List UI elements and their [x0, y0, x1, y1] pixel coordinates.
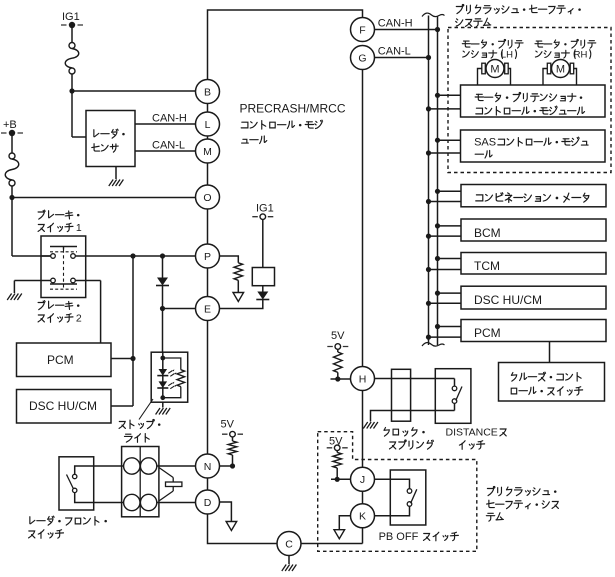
wire [207, 136, 209, 139]
label CAN-H (F) [378, 18, 413, 30]
wire [454, 379, 456, 387]
diode (brake signal) [156, 278, 169, 286]
label DSC HU/CM (right) [474, 293, 542, 307]
connector F [351, 18, 375, 42]
fuse (IG1 circuit) [65, 43, 79, 75]
node [426, 150, 431, 155]
svg-text:CAN-H: CAN-H [152, 113, 187, 125]
wire [14, 281, 50, 294]
capacitor (noise) [159, 468, 182, 502]
node [160, 356, 165, 361]
wire [543, 69, 577, 86]
wire [207, 268, 209, 297]
label precrash safety system (upper) [456, 4, 581, 26]
label DISTANCE switch [446, 427, 507, 450]
svg-text:IG1: IG1 [256, 203, 274, 215]
wire [362, 528, 364, 544]
DISTANCE switch contacts [452, 386, 457, 403]
connector J [351, 467, 375, 491]
svg-text:G: G [358, 52, 366, 64]
wire [71, 28, 73, 43]
relay box [252, 268, 274, 286]
svg-text:F: F [359, 24, 365, 36]
radar front switch contacts [73, 474, 77, 492]
svg-text:TCM: TCM [474, 259, 500, 273]
connector terminal [140, 494, 156, 510]
PB OFF switch contacts [407, 489, 412, 507]
connector L [196, 112, 220, 136]
svg-text:SAS: SAS [474, 137, 496, 149]
label motor pretensioner LH [462, 39, 523, 60]
wire [429, 152, 461, 154]
brake switch 1 contacts [51, 254, 76, 259]
wire CAN-L radar [135, 150, 196, 152]
BCM box [461, 219, 606, 241]
node [130, 253, 135, 258]
radar front switch box [59, 457, 94, 510]
wire [371, 411, 455, 422]
connector M [196, 139, 220, 163]
diode (IG1) [256, 292, 269, 300]
label CAN-H [152, 113, 187, 125]
node (IG1 branch) [69, 88, 74, 93]
dashed box (precrash system, upper) [448, 28, 611, 173]
wire [207, 163, 209, 185]
svg-text:P: P [204, 251, 211, 263]
node [335, 376, 340, 381]
label CAN-L [152, 140, 185, 152]
node [435, 138, 440, 143]
node [435, 223, 440, 228]
DISTANCE switch lever [456, 387, 462, 401]
ground (stop light) [156, 408, 171, 415]
node [130, 356, 135, 361]
svg-text:PRECRASH/MRCC: PRECRASH/MRCC [240, 102, 346, 116]
wire [232, 455, 234, 466]
wire [549, 342, 551, 363]
wire [336, 451, 338, 453]
svg-text:LH: LH [501, 50, 513, 61]
node [230, 463, 235, 468]
label 5V (N) [221, 419, 235, 431]
node [435, 27, 440, 32]
svg-text:K: K [359, 511, 366, 523]
wire [157, 465, 196, 467]
wire [438, 139, 461, 141]
wire [438, 292, 462, 294]
brake switch 2 dashed bar [50, 288, 77, 290]
node (+B branch) [9, 195, 14, 200]
connector G [351, 46, 375, 70]
ground (brake switch 2) [7, 294, 22, 301]
svg-text:DSC HU/CM: DSC HU/CM [29, 399, 97, 413]
arrow (to ground) [334, 530, 345, 539]
DSC HU/CM box (right) [461, 286, 606, 309]
label radar sensor [92, 129, 125, 152]
svg-text:J: J [360, 474, 365, 486]
DSC HU/CM box (left) [17, 390, 112, 424]
combination meter box [461, 185, 606, 207]
label clock spring [384, 428, 433, 450]
wire [454, 403, 456, 410]
node [160, 253, 165, 258]
label CAN-L (G) [378, 46, 411, 58]
SAS control module box [461, 130, 606, 162]
motor pretensioner control module box [461, 85, 606, 117]
wire CAN-H radar [135, 123, 196, 125]
wire [163, 358, 181, 370]
node [426, 199, 431, 204]
svg-text:DSC HU/CM: DSC HU/CM [474, 293, 542, 307]
wire [337, 349, 339, 352]
PB OFF switch box [390, 470, 426, 525]
node [426, 234, 431, 239]
wire [429, 201, 462, 203]
wire [11, 136, 13, 153]
svg-text:1: 1 [76, 222, 82, 234]
svg-text:M: M [490, 64, 499, 76]
label DSC HU/CM [29, 399, 97, 413]
wire [331, 478, 350, 480]
wire [220, 465, 233, 467]
connector B [196, 80, 220, 104]
node [435, 291, 440, 296]
brake switch box [41, 236, 86, 298]
fuse (+B circuit) [5, 153, 19, 186]
svg-text:N: N [204, 461, 212, 473]
PCM box (right) [461, 320, 606, 342]
brake switch link (dashed) [63, 250, 65, 289]
brake switch 2 contacts [51, 278, 76, 283]
wire [162, 402, 164, 407]
wire [438, 326, 462, 328]
wire [301, 543, 363, 545]
cruise control switch box [499, 363, 605, 402]
wire [220, 256, 239, 263]
wire [438, 225, 462, 227]
label 5V (H) [331, 330, 345, 342]
inline connector box [122, 447, 159, 517]
node [435, 324, 440, 329]
svg-text:M: M [203, 146, 212, 158]
label +B [3, 119, 17, 131]
svg-text:5V: 5V [221, 419, 235, 431]
wire [163, 308, 196, 310]
resistor (J pull-up) [333, 452, 342, 468]
svg-text:RH: RH [574, 50, 588, 61]
label BCM [474, 226, 501, 240]
DISTANCE switch box [435, 369, 471, 424]
node [426, 267, 431, 272]
power terminal 5V (J) [327, 445, 348, 451]
wire [115, 167, 117, 180]
node [426, 335, 431, 340]
wire [362, 70, 364, 367]
svg-text:BCM: BCM [474, 226, 501, 240]
label stop light [119, 419, 160, 442]
svg-text:H: H [359, 373, 367, 385]
wire [429, 108, 461, 110]
resistor (N pull-up) [228, 441, 237, 455]
wire [429, 302, 462, 304]
wire [72, 90, 196, 92]
wire brake sw1 to P [75, 255, 195, 257]
resistor (H pull-up) [334, 352, 343, 372]
label motor pretensioner control module [475, 92, 584, 115]
wire [75, 281, 100, 344]
svg-text:L: L [205, 119, 211, 131]
wire [72, 91, 86, 137]
label PCM (right) [474, 326, 501, 340]
svg-text:+B: +B [3, 119, 17, 131]
LED stop light 1 [157, 369, 176, 376]
wire [262, 220, 264, 268]
power terminal 5V (N) [222, 431, 243, 437]
svg-text:CAN-H: CAN-H [378, 18, 413, 30]
label precrash safety system (lower) [486, 486, 558, 521]
connector E [196, 297, 220, 321]
svg-text:PCM: PCM [47, 353, 74, 367]
wire [75, 466, 124, 474]
label motor pretensioner RH [535, 39, 596, 60]
wire [111, 358, 133, 360]
power terminal IG1 (center) [252, 214, 273, 220]
motor pretensioner RH [547, 60, 573, 78]
connector terminal [124, 494, 140, 510]
wire [157, 502, 196, 504]
arrow (to ground) [226, 522, 237, 531]
power terminal IG1 (top left) [61, 22, 83, 28]
svg-text:O: O [203, 192, 211, 204]
wire [207, 209, 209, 244]
label PCM [47, 353, 74, 367]
connector N [196, 454, 220, 478]
PB OFF switch lever [411, 489, 417, 503]
wire [438, 94, 461, 96]
wire [262, 286, 264, 292]
power terminal +B [1, 130, 23, 136]
motor pretensioner LH [482, 60, 508, 78]
wire [111, 405, 133, 407]
connector K [351, 504, 375, 528]
svg-text:M: M [556, 64, 565, 76]
connector terminal [140, 458, 156, 474]
node [426, 55, 431, 60]
bus break (top) [422, 13, 445, 17]
wire [331, 378, 351, 380]
wire CAN-H bus [375, 29, 438, 31]
svg-text:OFF: OFF [396, 531, 418, 543]
wire [207, 478, 209, 490]
CAN bus line L [428, 16, 430, 346]
svg-text:5V: 5V [331, 330, 345, 342]
wire K to PB OFF switch [375, 506, 410, 516]
wire H to distance switch [375, 378, 455, 380]
bus break (bottom) [422, 343, 445, 347]
wire [429, 269, 462, 271]
wire [163, 387, 181, 398]
connector O [196, 185, 220, 209]
connector D [196, 490, 220, 514]
svg-text:CAN-L: CAN-L [152, 140, 185, 152]
wire [207, 321, 209, 455]
node [160, 306, 165, 311]
wire [162, 256, 164, 278]
wire [288, 556, 290, 565]
resistor (P pull) [234, 263, 243, 281]
wire [11, 186, 13, 198]
wire [12, 198, 51, 257]
wire [208, 514, 278, 544]
node [160, 395, 165, 400]
svg-text:C: C [285, 538, 293, 550]
label cruise control switch [511, 372, 582, 395]
radar front switch lever [67, 475, 74, 490]
ground (connector C) [282, 565, 297, 572]
dashed box (precrash system, lower) [318, 432, 477, 552]
CAN bus line R [437, 17, 439, 346]
svg-text:CAN-L: CAN-L [378, 46, 411, 58]
node [435, 189, 440, 194]
label TCM [474, 259, 500, 273]
radar sensor box [86, 111, 135, 167]
ground (distance switch) [363, 422, 378, 429]
resistor (stop light) [177, 370, 185, 387]
TCM box [461, 253, 606, 275]
wire [438, 190, 462, 192]
clock spring box [392, 369, 411, 421]
connector H [351, 367, 375, 391]
label pointer line [139, 399, 153, 420]
label PRECRASH/MRCC module [240, 102, 346, 144]
svg-text:DISTANCE: DISTANCE [446, 427, 498, 439]
wire CAN-L bus [375, 57, 429, 59]
wire [336, 468, 338, 479]
wire [220, 300, 263, 309]
label IG1 [62, 11, 80, 23]
connector P [196, 244, 220, 268]
wire J to PB OFF switch [375, 479, 410, 488]
svg-text:PCM: PCM [474, 326, 501, 340]
wire [362, 391, 364, 468]
label combination meter [476, 193, 589, 203]
svg-text:PB: PB [379, 531, 394, 543]
wire [337, 372, 339, 379]
wire [478, 69, 511, 86]
label IG1 (center) [256, 203, 274, 215]
wire [207, 104, 209, 113]
wire [438, 258, 462, 260]
wire [162, 286, 164, 353]
wire [429, 336, 462, 338]
svg-text:E: E [204, 303, 211, 315]
power terminal 5V (H) [327, 344, 348, 350]
brake switch 1 contact bar [50, 247, 77, 250]
connector terminal [124, 458, 140, 474]
ground (radar sensor) [109, 180, 124, 187]
wire [75, 493, 124, 503]
brake switch 2 contact bar [50, 283, 77, 285]
wire [162, 352, 164, 398]
wire [132, 256, 134, 406]
label radar front switch [29, 516, 107, 538]
node [426, 301, 431, 306]
svg-text:D: D [204, 497, 212, 509]
brake switch dashed bar [50, 251, 77, 253]
label SAS control module [474, 137, 588, 159]
wire [12, 197, 196, 199]
svg-text:B: B [204, 86, 211, 98]
PCM box (left) [17, 343, 112, 377]
stop light box [151, 352, 188, 402]
LED stop light 2 [157, 381, 176, 388]
svg-text:2: 2 [76, 313, 82, 325]
label 5V (J) [329, 436, 343, 448]
wire [232, 437, 234, 441]
label PB OFF switch [379, 531, 459, 543]
wire [237, 280, 239, 292]
node [435, 93, 440, 98]
connector C [277, 532, 301, 556]
wire [41, 255, 51, 257]
arrow (to ground) [233, 293, 244, 302]
wire [220, 502, 232, 522]
wire [362, 491, 364, 504]
svg-text:IG1: IG1 [62, 11, 80, 23]
label brake switch 2 [38, 301, 82, 325]
wire [339, 516, 350, 530]
wire main loop top [208, 10, 363, 80]
node [435, 256, 440, 261]
node [335, 477, 340, 482]
wire [429, 235, 462, 237]
label brake switch 1 [38, 210, 82, 234]
node [426, 106, 431, 111]
wire [71, 74, 73, 91]
